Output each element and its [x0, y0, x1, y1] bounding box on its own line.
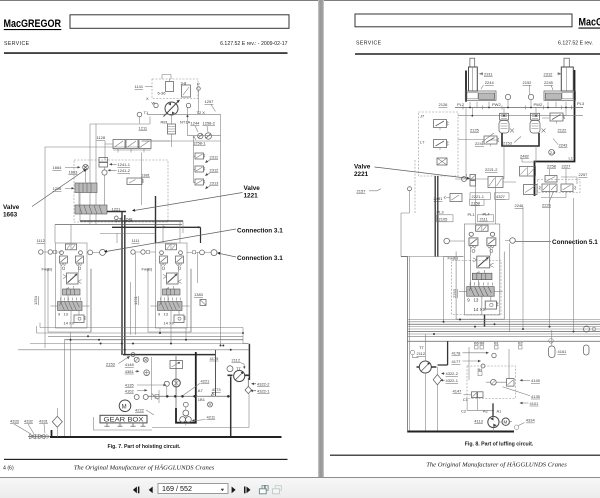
gauge 2112: [410, 350, 414, 354]
svg-text:4145: 4145: [531, 378, 541, 383]
relief valve 2122: [550, 113, 565, 124]
filter R81: [168, 124, 176, 134]
svg-text:2311: 2311: [210, 154, 219, 159]
valve 4147: [472, 392, 478, 398]
svg-text:4102: 4102: [125, 388, 135, 393]
header junctions: [163, 226, 165, 228]
wire 1226 drop: [79, 167, 105, 205]
svg-text:PL4: PL4: [483, 212, 491, 217]
small box X: [437, 158, 447, 165]
svg-text:J7: J7: [420, 114, 425, 119]
wires bank drops: [71, 269, 187, 437]
svg-text:X: X: [193, 134, 196, 139]
cylinder 2312 base block: [544, 91, 576, 100]
svg-text:2246: 2246: [515, 203, 525, 208]
bus line r6: [408, 331, 600, 333]
capsule far right: [584, 345, 590, 355]
bus line r4: [408, 326, 600, 328]
svg-text:6.127.52 E rev.: - 2009-02-: 6.127.52 E rev.: - 2009-02-17: [220, 41, 287, 47]
svg-text:4322-1: 4322-1: [446, 378, 459, 383]
svg-text:2221-2: 2221-2: [485, 167, 498, 172]
filter 4322: [245, 386, 252, 393]
svg-text:W: W: [152, 101, 156, 106]
gear box pipe: [93, 417, 152, 430]
relief valve 2126a: [434, 120, 449, 131]
svg-text:2312: 2312: [210, 167, 220, 172]
bus line 2: [37, 326, 244, 333]
wire drops to banks: [55, 193, 183, 244]
wire arrow 4101: [521, 402, 529, 404]
pump unit dashed enclosure: [152, 79, 198, 99]
svg-text:4177: 4177: [452, 359, 462, 364]
fitting squares row: [475, 346, 479, 350]
svg-text:Fig. 8. Part of luffing circui: Fig. 8. Part of luffing circuit.: [465, 442, 534, 448]
port circles right of bank2: [200, 250, 205, 255]
svg-text:SERVICE: SERVICE: [356, 41, 382, 47]
svg-text:C2: C2: [461, 409, 467, 414]
svg-text:TT: TT: [236, 366, 241, 371]
wire 2112 stubs thick: [417, 366, 437, 368]
gauge 4173: [208, 402, 213, 407]
manifold junctions: [469, 107, 567, 109]
svg-text:PL2: PL2: [457, 102, 465, 107]
wire 4145: [486, 349, 509, 382]
wires cylinder drops: [470, 102, 566, 108]
dashed enclosure 1221: [74, 160, 168, 222]
valve 1248: [115, 216, 119, 220]
valve 2482b: [520, 167, 536, 177]
svg-text:PW2: PW2: [492, 102, 501, 107]
svg-text:B1: B1: [494, 341, 500, 346]
upper rail: [458, 115, 583, 117]
wire pump tail: [172, 108, 188, 147]
svg-text:4322-1: 4322-1: [257, 389, 270, 394]
leader Connection 5.1: [515, 241, 551, 243]
fitting on bus: [131, 353, 135, 357]
svg-text:PL3: PL3: [437, 210, 445, 215]
check 4148b: [143, 357, 148, 362]
leader arrows 231x: [206, 160, 211, 189]
sub frame 1128: [142, 141, 171, 205]
check valve 1244: [198, 133, 203, 138]
leader 4173: [211, 393, 214, 396]
filter 4322: [433, 375, 441, 385]
wire arrows 4322r: [441, 374, 445, 381]
main pump 4113: [488, 416, 499, 427]
valve 2258: [542, 184, 557, 192]
bus line r2: [408, 321, 600, 323]
svg-text:2112: 2112: [232, 358, 241, 363]
bus line 1: [40, 323, 243, 328]
bus junctions: [70, 332, 245, 351]
link line low: [467, 398, 494, 411]
svg-text:1128: 1128: [97, 135, 106, 140]
motor M: [119, 400, 131, 412]
label 2158: [470, 199, 485, 205]
valve 2481: [450, 194, 462, 202]
svg-text:4221: 4221: [201, 379, 211, 384]
supply pair thick: [122, 212, 125, 355]
svg-text:2313: 2313: [210, 180, 220, 185]
wires pressure cluster: [458, 108, 566, 180]
svg-text:2126: 2126: [439, 102, 449, 107]
supply pair thick: [435, 176, 438, 257]
svg-text:PW2: PW2: [534, 102, 543, 107]
charge pump: [166, 82, 174, 92]
svg-text:4101: 4101: [530, 401, 540, 406]
relief valve 2127: [484, 136, 499, 147]
leader Valve 1663: [32, 170, 85, 207]
svg-text:Fig. 7. Part of hoisting circu: Fig. 7. Part of hoisting circuit.: [108, 444, 181, 450]
svg-text:L1: L1: [569, 156, 574, 161]
svg-text:1241-1: 1241-1: [118, 162, 131, 167]
svg-text:2105: 2105: [439, 217, 449, 222]
pressure box thick: [176, 352, 196, 423]
svg-text:A7: A7: [198, 388, 204, 393]
svg-text:1381: 1381: [141, 173, 151, 178]
wire arrow 4145: [521, 379, 530, 381]
compensator 2242: [531, 113, 540, 120]
pump unit 4211: [183, 402, 188, 407]
node junction: [187, 115, 189, 117]
manifold 1221: [75, 205, 107, 214]
svg-text:2157: 2157: [357, 189, 367, 194]
svg-text:2125: 2125: [470, 128, 480, 133]
wires bank ports: [450, 240, 510, 243]
wires port row: [43, 251, 211, 253]
svg-text:2152: 2152: [523, 80, 533, 85]
node X 2242: [542, 129, 546, 133]
charge line thick: [438, 341, 448, 365]
bus line 4: [64, 339, 243, 341]
main pump 1141: [165, 102, 178, 115]
gauge 2112: [227, 366, 233, 372]
gauge 2.9: [549, 150, 555, 156]
prev-page button: [149, 487, 153, 494]
wire pump connections: [493, 422, 512, 432]
svg-text:1257: 1257: [205, 99, 215, 104]
svg-text:4332: 4332: [24, 419, 34, 424]
valve bank 2111: [456, 224, 504, 319]
svg-text:1383: 1383: [194, 292, 204, 297]
svg-text:PL3: PL3: [577, 101, 585, 106]
wire drops from valve row: [523, 198, 574, 332]
label 2221-1: [470, 193, 491, 200]
port S: [186, 103, 190, 107]
svg-text:4322-2: 4322-2: [257, 382, 270, 387]
svg-text:2311: 2311: [484, 72, 493, 77]
manifold line: [455, 107, 583, 109]
page number box: [158, 484, 228, 494]
svg-text:6.127.52 E rev.: 6.127.52 E rev.: [558, 41, 593, 47]
svg-text:Connection 5.1: Connection 5.1: [552, 239, 598, 246]
svg-text:M: M: [122, 404, 127, 410]
cylinder 2312 body: [561, 67, 573, 91]
main pump 2112: [419, 361, 431, 373]
svg-text:4 (6): 4 (6): [3, 465, 14, 471]
svg-text:B2: B2: [518, 341, 524, 346]
svg-text:1111: 1111: [132, 238, 141, 243]
svg-text:A2: A2: [483, 409, 489, 414]
wire arrow 1141: [145, 86, 152, 88]
last-page button: [244, 487, 246, 494]
boost pump 4221: [172, 379, 180, 387]
svg-text:Valve: Valve: [3, 204, 20, 211]
svg-text:1663: 1663: [69, 170, 79, 175]
wire top manifold: [147, 113, 221, 115]
port circles left of bank1: [39, 250, 43, 254]
leader 2153: [119, 357, 129, 364]
tank line tail: [28, 436, 50, 438]
wire P drop: [198, 90, 200, 114]
header wires banks: [80, 220, 183, 222]
port square right bank2: [193, 251, 196, 254]
top window border: [0, 0, 600, 1]
wire arrows 1241: [109, 164, 117, 170]
leader 2157: [369, 189, 381, 191]
label 2111: [478, 215, 494, 222]
svg-text:1221: 1221: [112, 206, 122, 211]
dashed box bank: [452, 261, 502, 315]
svg-text:2241: 2241: [475, 141, 485, 146]
bus line r3: [408, 323, 600, 325]
valve 2246: [524, 185, 538, 195]
compensator 2241: [500, 113, 509, 120]
label 2105: [437, 215, 454, 222]
svg-text:Connection 3.1: Connection 3.1: [237, 227, 283, 234]
valve 2312: [195, 166, 205, 172]
long drain vertical: [63, 340, 65, 437]
bus line 5: [30, 343, 249, 345]
svg-text:Fw(B): Fw(B): [142, 267, 153, 272]
port W: [154, 103, 158, 107]
boost pump 4145a: [491, 379, 497, 385]
cylinder 2311 rod: [470, 58, 475, 67]
leader Valve 1221: [134, 193, 243, 211]
svg-text:2112: 2112: [417, 351, 426, 356]
svg-text:4148: 4148: [125, 362, 135, 367]
svg-text:4327: 4327: [496, 194, 506, 199]
breather 4334: [514, 425, 518, 429]
drain port 2157: [408, 187, 412, 191]
svg-text:4333: 4333: [10, 419, 20, 424]
leader 2112: [240, 363, 244, 368]
svg-text:2.9: 2.9: [550, 150, 556, 155]
bus right link: [243, 328, 249, 344]
main pump 2112: [234, 370, 245, 381]
svg-text:4113: 4113: [474, 419, 483, 424]
svg-text:1241-2: 1241-2: [118, 168, 131, 173]
valves 1241: [99, 158, 108, 163]
suction line thick: [230, 377, 232, 438]
svg-text:B4: B4: [478, 367, 484, 372]
bus line r5: [408, 328, 600, 330]
rail junctions: [503, 115, 505, 117]
svg-text:2122: 2122: [558, 128, 568, 133]
svg-text:1211: 1211: [139, 126, 148, 131]
cylinder 2311 body: [469, 67, 478, 91]
wire 4135: [137, 384, 165, 386]
leader Connection 3.1 b: [219, 253, 237, 257]
first-page button: [133, 487, 137, 494]
port 4177: [481, 364, 485, 368]
motor M right: [502, 418, 509, 425]
leader 4135: [503, 387, 531, 396]
svg-text:2245: 2245: [544, 80, 554, 85]
label 4327: [495, 193, 510, 200]
main frame box: [45, 141, 221, 348]
svg-text:2153: 2153: [503, 141, 513, 146]
cylinder 2311 base block: [465, 91, 496, 100]
svg-text:1664: 1664: [53, 165, 63, 170]
next-page button: [232, 487, 236, 494]
wire 4102: [137, 389, 146, 391]
wire 1221 thick: [107, 211, 126, 213]
bus line r7: [408, 333, 600, 335]
feeder bank2b thick: [200, 227, 202, 243]
wire 2157 drop: [401, 191, 464, 257]
svg-text:A1: A1: [497, 409, 503, 414]
port 4178: [492, 353, 496, 357]
bus line 3: [48, 335, 243, 337]
svg-text:2158: 2158: [471, 200, 481, 205]
bus line r1: [408, 319, 600, 321]
svg-text:1258-2: 1258-2: [203, 120, 216, 125]
svg-text:R81: R81: [161, 120, 169, 125]
feeder bank2 thick: [155, 196, 157, 243]
bus line r8: [408, 336, 600, 338]
svg-text:2257: 2257: [579, 172, 589, 177]
svg-text:4322-2: 4322-2: [446, 371, 459, 376]
leader Valve 2221: [375, 167, 469, 178]
wire relief column: [194, 136, 196, 183]
svg-text:2221: 2221: [354, 171, 369, 178]
bus junctions right: [433, 319, 575, 336]
pilot valve 2258a: [545, 176, 557, 183]
svg-text:2243: 2243: [559, 143, 569, 148]
svg-text:MacGREGOR: MacGREGOR: [579, 17, 600, 29]
node B4: [478, 372, 482, 376]
wire vents top: [162, 75, 171, 80]
pilot link thick: [502, 133, 539, 146]
svg-text:M: M: [504, 420, 508, 425]
svg-text:2312: 2312: [544, 72, 554, 77]
wire arrow 1248: [119, 218, 123, 220]
cabinet edge thick right: [535, 70, 575, 196]
wire 2157 long drop: [413, 355, 419, 358]
valve 1381: [127, 178, 142, 185]
accumulator 4161: [549, 346, 556, 358]
charge riser thick: [248, 344, 250, 380]
svg-text:C1: C1: [463, 397, 469, 402]
svg-text:2482: 2482: [520, 154, 530, 159]
wires 2221 drops: [476, 186, 510, 332]
valve 2221 assembly: [462, 177, 467, 182]
svg-text:2226: 2226: [542, 203, 552, 208]
svg-text:1254: 1254: [33, 295, 38, 305]
valve 2313: [195, 179, 205, 185]
leader 4221: [184, 383, 201, 395]
svg-text:PL1: PL1: [468, 212, 476, 217]
valve 4381: [144, 370, 150, 376]
port square bank1: [54, 250, 57, 253]
svg-text:1663: 1663: [3, 212, 18, 219]
wire frame right: [220, 114, 222, 345]
svg-text:The Original Manufacturer of H: The Original Manufacturer of HÄGGLUNDS C…: [74, 465, 215, 472]
service row fittings: [166, 395, 169, 398]
svg-text:4135: 4135: [531, 394, 541, 399]
valve bank 1112: [48, 243, 91, 332]
leader 2226: [549, 192, 554, 203]
port right bank: [510, 238, 516, 244]
orifice 1383: [200, 300, 206, 306]
wires valve row: [541, 169, 577, 198]
svg-text:1112: 1112: [37, 238, 46, 243]
svg-text:SERVICE: SERVICE: [4, 41, 30, 47]
svg-text:3-8: 3-8: [181, 81, 188, 86]
relief valve box top: [170, 361, 183, 369]
page gap band: [318, 0, 324, 477]
svg-text:6-36: 6-36: [158, 91, 167, 96]
wire arrow 4381: [135, 370, 138, 372]
filter 4334: [52, 416, 62, 427]
svg-text:Fw(B): Fw(B): [42, 267, 53, 272]
leaders 433x: [14, 424, 45, 434]
leader Connection 3.1 a: [106, 229, 236, 252]
port ticks: [463, 106, 572, 110]
wire bank bottom drop thick: [484, 315, 486, 327]
wires 4178/4177: [463, 347, 489, 380]
relief valve 3-8: [182, 85, 191, 97]
svg-text:4173: 4173: [212, 387, 222, 392]
wire 1128 left: [105, 141, 113, 160]
svg-text:2258: 2258: [547, 164, 557, 169]
node X 2241: [510, 129, 514, 133]
shutoff valve 4332: [30, 434, 36, 439]
pump 4148: [134, 357, 139, 362]
left boundary wire b: [409, 257, 411, 433]
leaders 1258: [195, 126, 209, 140]
port circles far right: [584, 326, 590, 332]
svg-text:Valve: Valve: [244, 185, 261, 192]
gauge 1211: [137, 112, 142, 117]
svg-text:P: P: [197, 82, 200, 87]
wire arrow 1664: [65, 166, 79, 168]
gauge pair right: [549, 339, 554, 344]
svg-text:4175: 4175: [210, 356, 220, 361]
wire 4161: [552, 330, 557, 352]
svg-text:GEAR BOX: GEAR BOX: [104, 417, 144, 423]
svg-text:4147: 4147: [453, 389, 463, 394]
wires between banks: [131, 252, 198, 335]
valve 4145: [507, 379, 515, 387]
svg-text:4222: 4222: [135, 408, 145, 413]
leader 1257: [211, 105, 216, 112]
svg-text:4161: 4161: [558, 349, 568, 354]
valve 2311: [195, 153, 205, 159]
left boundary wire: [401, 257, 408, 433]
gear box: [100, 415, 147, 423]
wire arrow 4211: [193, 420, 206, 421]
svg-text:NT1A: NT1A: [180, 120, 191, 125]
leaders pressure cluster: [482, 133, 558, 145]
svg-text:Connection 3.1: Connection 3.1: [237, 255, 283, 262]
return line mid: [152, 394, 249, 428]
svg-text:Valve: Valve: [354, 164, 371, 171]
pilot unit dashed box: [419, 112, 459, 176]
svg-text:1221: 1221: [244, 193, 259, 200]
relief valve 2126b: [434, 140, 449, 151]
